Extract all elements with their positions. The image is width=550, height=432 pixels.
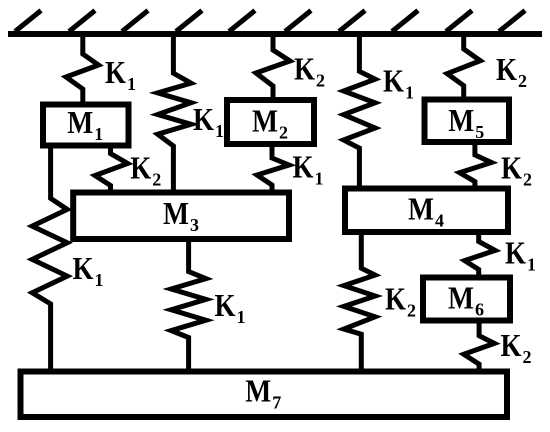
- svg-text:K: K: [105, 54, 126, 90]
- svg-text:2: 2: [523, 347, 532, 367]
- svg-text:2: 2: [407, 301, 416, 321]
- svg-text:K: K: [383, 63, 404, 99]
- spring K2 M4 to M7: [344, 233, 375, 370]
- label K2 (ceiling-M5 spring): [496, 51, 527, 91]
- svg-text:2: 2: [316, 71, 325, 91]
- svg-text:M: M: [163, 195, 189, 231]
- spring K2 M5 to M4: [460, 143, 492, 188]
- svg-text:1: 1: [215, 121, 224, 141]
- spring K2 M1 to M3: [95, 146, 128, 192]
- svg-text:K: K: [385, 281, 406, 317]
- mass M5 box: [425, 100, 510, 143]
- label K1 (left M1-M7 spring): [73, 250, 104, 290]
- svg-text:K: K: [294, 51, 315, 87]
- ceiling hatch marks: [15, 11, 525, 32]
- label M3: [163, 195, 199, 235]
- svg-text:5: 5: [475, 122, 484, 142]
- svg-text:K: K: [501, 150, 522, 186]
- svg-text:M: M: [448, 102, 474, 138]
- svg-text:6: 6: [475, 299, 484, 319]
- svg-text:M: M: [67, 104, 93, 140]
- svg-text:1: 1: [127, 74, 136, 94]
- label M5: [448, 102, 484, 142]
- svg-text:3: 3: [190, 215, 199, 235]
- svg-text:1: 1: [94, 124, 103, 144]
- svg-text:K: K: [505, 235, 526, 271]
- spring K1 M4 to M6: [465, 233, 496, 277]
- svg-text:K: K: [193, 101, 214, 137]
- label K2 (M6-M7 spring): [501, 327, 532, 367]
- spring K1 ceiling to M1: [66, 36, 99, 103]
- svg-text:2: 2: [152, 170, 161, 190]
- mass M1 box: [43, 105, 129, 146]
- mass M4 box: [345, 189, 508, 233]
- ceiling (fixed support): [8, 31, 542, 37]
- spring K1 ceiling to M3: [158, 36, 191, 192]
- svg-text:M: M: [245, 373, 271, 409]
- label M7: [245, 373, 281, 413]
- svg-text:7: 7: [272, 393, 281, 413]
- spring K2 ceiling to M2: [256, 36, 290, 99]
- label K1 (M2-M3 spring): [293, 149, 324, 189]
- label K1 (ceiling-M1 spring): [105, 54, 136, 94]
- spring K1 ceiling to M4: [344, 36, 376, 188]
- mass M6 box: [423, 278, 510, 321]
- svg-text:K: K: [293, 149, 314, 185]
- svg-text:K: K: [501, 327, 522, 363]
- svg-text:1: 1: [237, 307, 246, 327]
- svg-text:2: 2: [523, 170, 532, 190]
- mass M3 box: [73, 193, 289, 240]
- label K1 (M4-M6 spring): [505, 235, 536, 275]
- mass M2 box: [227, 100, 314, 144]
- label M4: [408, 191, 444, 231]
- svg-text:M: M: [448, 279, 474, 315]
- spring K2 M6 to M7: [464, 321, 495, 370]
- mass M7 box: [21, 372, 508, 418]
- label K2 (M1-M3 spring): [130, 150, 161, 190]
- label M6: [448, 279, 484, 319]
- label K1 (ceiling-M4 spring): [383, 63, 414, 103]
- svg-text:M: M: [408, 191, 434, 227]
- label K2 (M5-M4 spring): [501, 150, 532, 190]
- spring K1 M1 to M7 (left): [32, 146, 67, 370]
- label K1 (ceiling-M3 spring): [193, 101, 224, 141]
- svg-text:1: 1: [315, 169, 324, 189]
- svg-text:K: K: [215, 287, 236, 323]
- label K1 (M3-M7 spring): [215, 287, 246, 327]
- label M2: [252, 103, 288, 143]
- svg-text:1: 1: [95, 270, 104, 290]
- svg-text:1: 1: [527, 255, 536, 275]
- label K2 (ceiling-M2 spring): [294, 51, 325, 91]
- svg-text:M: M: [252, 103, 278, 139]
- label M1: [67, 104, 103, 144]
- svg-text:2: 2: [279, 123, 288, 143]
- svg-text:K: K: [496, 51, 517, 87]
- svg-text:2: 2: [518, 71, 527, 91]
- spring K1 M2 to M3: [257, 145, 289, 192]
- spring K2 ceiling to M5: [447, 36, 480, 99]
- svg-text:K: K: [130, 150, 151, 186]
- svg-text:4: 4: [435, 211, 444, 231]
- svg-text:K: K: [73, 250, 94, 286]
- spring K1 M3 to M7: [171, 241, 206, 370]
- svg-text:1: 1: [405, 83, 414, 103]
- label K2 (M4-M7 spring): [385, 281, 416, 321]
